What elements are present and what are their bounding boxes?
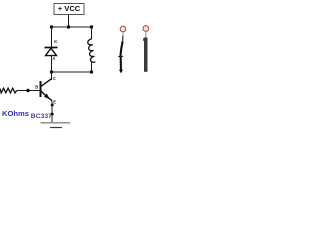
wire switch upper lead — [122, 36, 124, 43]
diode D1 (flyback, cathode up) — [45, 48, 58, 56]
node ground pin — [51, 113, 54, 116]
terminal ring right — [143, 26, 149, 32]
wire emitter lead — [51, 101, 53, 122]
power supply box +VCC — [54, 4, 84, 15]
svg-text:+ VCC: + VCC — [58, 4, 81, 13]
wire diode top lead — [51, 27, 53, 47]
ground — [41, 123, 71, 128]
node bottom-left — [50, 70, 53, 73]
svg-text:BC337: BC337 — [31, 113, 52, 120]
svg-text:A: A — [52, 56, 55, 61]
node bottom-right — [90, 70, 93, 73]
svg-text:KOhms: KOhms — [2, 109, 29, 118]
node top-right — [90, 25, 93, 28]
node base junction — [26, 89, 29, 92]
terminal ring left — [120, 26, 126, 32]
wire switch stub — [122, 32, 124, 36]
resistor R1 — [0, 88, 17, 93]
svg-text:E: E — [53, 99, 56, 104]
wire collector lead — [51, 72, 53, 80]
svg-text:B: B — [35, 85, 38, 90]
transistor Q1 BC337 (NPN) — [40, 79, 53, 101]
wire coil bottom lead — [91, 62, 93, 72]
node top-left — [50, 25, 53, 28]
node junction VCC-T — [67, 25, 70, 28]
switch arm SW1 — [118, 42, 123, 73]
svg-text:C: C — [53, 76, 56, 81]
wire diode bottom lead — [51, 56, 53, 72]
node emitter pin — [51, 104, 54, 107]
contact bar right — [144, 32, 148, 72]
wire base lead — [17, 90, 40, 92]
svg-text:K: K — [54, 39, 57, 44]
wire bottom rail — [52, 71, 92, 73]
wire top rail — [52, 26, 92, 28]
wire coil top lead — [91, 27, 93, 39]
inductor relay coil L1 — [88, 39, 96, 62]
wire VCC stub — [68, 15, 70, 28]
